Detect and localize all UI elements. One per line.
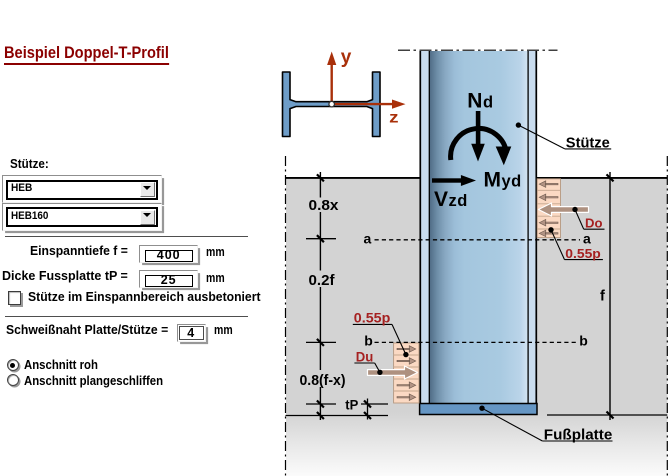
svg-text:Fußplatte: Fußplatte bbox=[544, 426, 613, 443]
svg-text:0.55p: 0.55p bbox=[565, 246, 601, 261]
svg-text:y: y bbox=[341, 47, 352, 68]
svg-text:0.8(f-x): 0.8(f-x) bbox=[300, 373, 346, 389]
svg-text:Do: Do bbox=[585, 215, 603, 230]
svg-text:Du: Du bbox=[356, 349, 374, 365]
svg-text:d: d bbox=[483, 94, 493, 112]
svg-text:f: f bbox=[600, 289, 605, 305]
svg-text:a: a bbox=[583, 231, 591, 247]
svg-text:b: b bbox=[364, 333, 373, 349]
svg-text:N: N bbox=[467, 90, 482, 113]
svg-text:0.55p: 0.55p bbox=[354, 311, 391, 327]
svg-text:0.8x: 0.8x bbox=[309, 198, 339, 214]
svg-text:zd: zd bbox=[449, 192, 468, 210]
svg-text:0.2f: 0.2f bbox=[309, 273, 335, 289]
svg-text:z: z bbox=[389, 109, 399, 126]
svg-text:a: a bbox=[364, 231, 372, 247]
svg-text:tP: tP bbox=[345, 398, 358, 413]
svg-text:M: M bbox=[484, 169, 502, 192]
svg-text:yd: yd bbox=[502, 173, 522, 191]
svg-text:V: V bbox=[434, 188, 448, 211]
svg-text:b: b bbox=[579, 333, 588, 349]
svg-text:Stütze: Stütze bbox=[566, 134, 610, 151]
